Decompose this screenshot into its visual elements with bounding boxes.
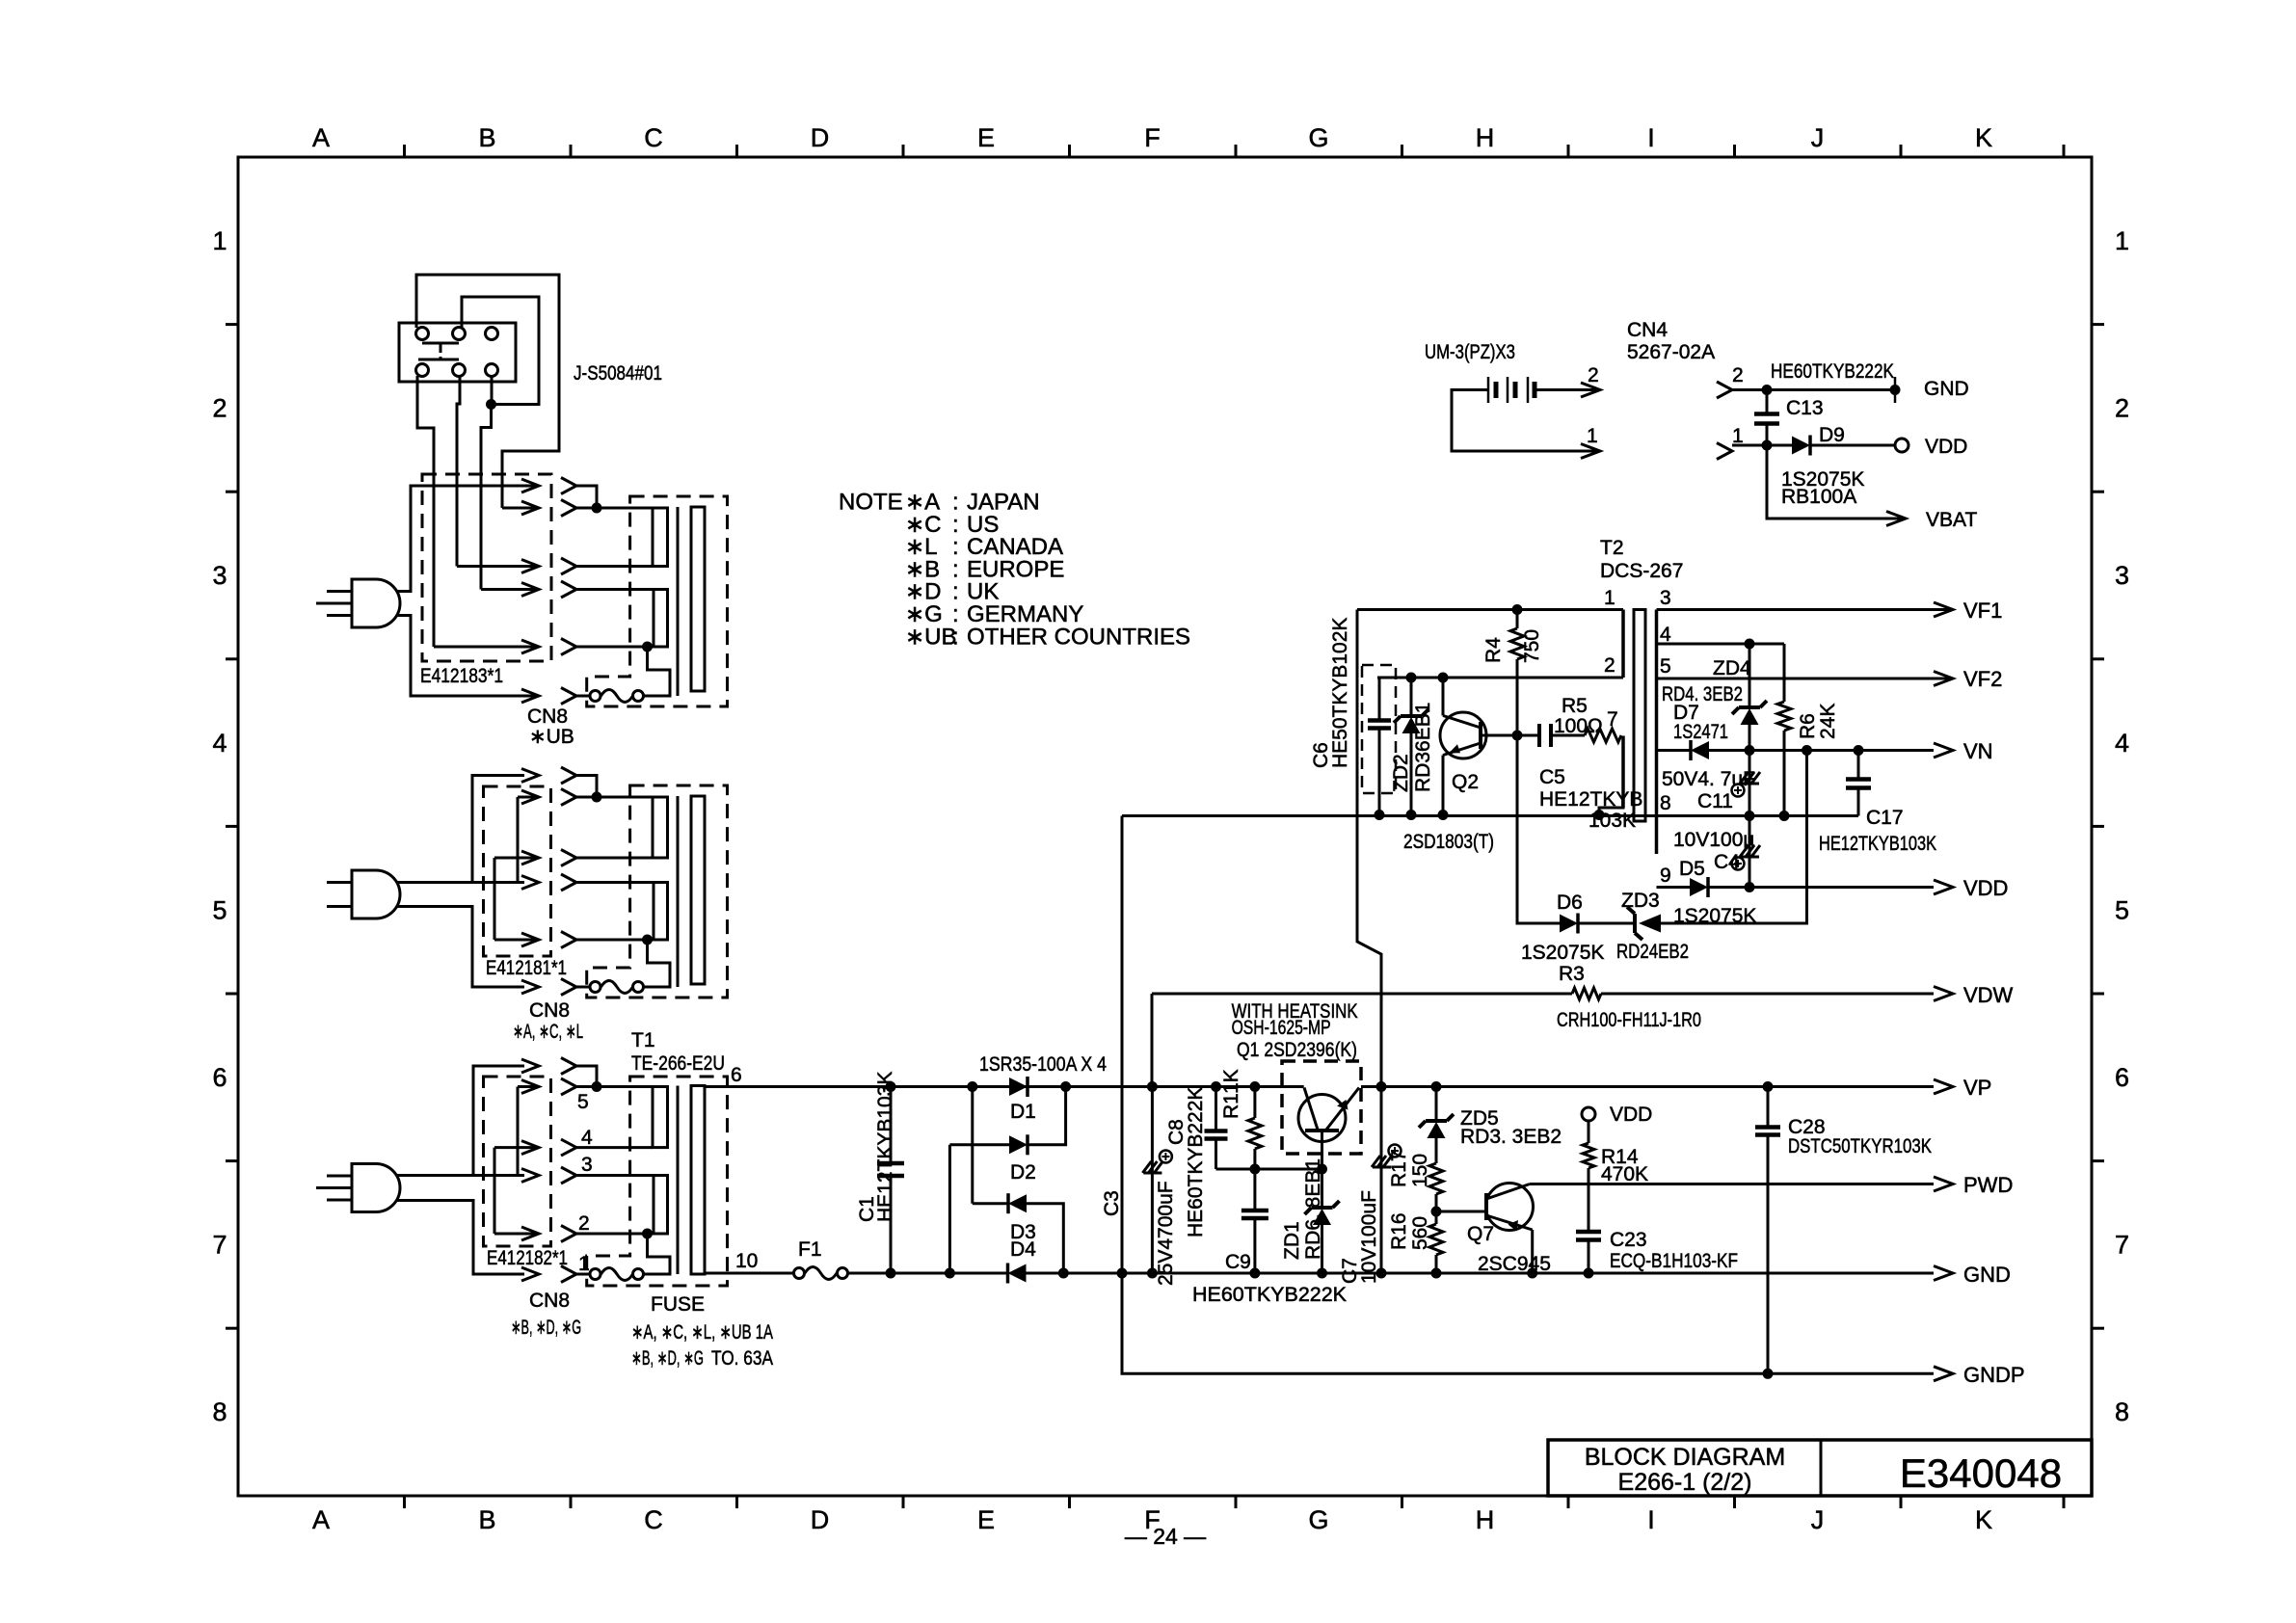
grid row ticks left (226, 323, 238, 326)
svg-text:E: E (977, 123, 995, 152)
wire VDW line (1152, 993, 1572, 996)
node C28 top (1763, 1081, 1774, 1092)
wire selector loop2 (462, 297, 539, 405)
transformer primary winding 2 (654, 1176, 668, 1235)
wire D3 line (973, 1202, 1008, 1205)
node R6 bottom (1779, 811, 1790, 821)
svg-text:3: 3 (1660, 587, 1671, 609)
node thermal fuse return (642, 642, 653, 652)
svg-text:VF1: VF1 (1963, 599, 2002, 623)
svg-text:E340048: E340048 (1900, 1450, 2062, 1496)
svg-text:CN8: CN8 (529, 1290, 570, 1312)
node D5 cathode / C4 bottom (1745, 882, 1755, 892)
svg-text:5: 5 (577, 1091, 589, 1113)
transformer secondary winding (691, 1086, 705, 1275)
svg-text:150: 150 (1409, 1154, 1431, 1187)
node C11 bottom (1745, 811, 1755, 821)
svg-text:RD3. 3EB2: RD3. 3EB2 (1460, 1126, 1562, 1148)
node D9 anode (1762, 440, 1773, 451)
svg-text:5267-02A: 5267-02A (1627, 341, 1715, 363)
diode D4 (on pin10 line) (1006, 1264, 1010, 1284)
svg-text::: : (952, 624, 959, 650)
svg-text:ECQ-B1H103-KF: ECQ-B1H103-KF (1610, 1250, 1738, 1272)
wire Q7 emitter down (1531, 1230, 1534, 1273)
fuse F1 (794, 1268, 805, 1279)
svg-text:ZD1: ZD1 (1281, 1221, 1303, 1260)
node D1 cathode (1060, 1081, 1071, 1092)
svg-text:F1: F1 (798, 1238, 822, 1261)
svg-text:2: 2 (1604, 654, 1615, 677)
svg-text:Q2: Q2 (1452, 771, 1479, 793)
resistor R16 560 (1435, 1211, 1438, 1224)
node D2 anode on pin10 line (945, 1268, 955, 1279)
node thermal fuse return (642, 935, 653, 945)
svg-text:RD24EB2: RD24EB2 (1616, 941, 1689, 963)
wire row4 to primary2 top (576, 588, 654, 591)
svg-text:1: 1 (1604, 587, 1615, 609)
svg-text:5: 5 (1660, 655, 1671, 678)
capacitor C4 (electrolytic) (1749, 816, 1751, 888)
node ZD5 top (1431, 1081, 1442, 1092)
node D3 anode on pin10 line (1058, 1268, 1069, 1279)
wire row2 to primary1 top (A2) (576, 796, 653, 799)
wire Q7 base (1436, 1211, 1486, 1213)
svg-text:E: E (977, 1505, 995, 1534)
transformer secondary winding (691, 796, 705, 984)
T2 right winding (secondary 3-9) (1655, 610, 1659, 855)
svg-text:C: C (644, 123, 663, 152)
wire VP rail right segment (1361, 1085, 1934, 1088)
node C9 bottom (1249, 1268, 1260, 1279)
svg-text:3: 3 (581, 1154, 593, 1176)
wire D2 line (949, 1143, 1009, 1146)
wire row6 to thermal fuse (576, 695, 590, 698)
wire row2 to T1 primary1 top (576, 1085, 653, 1088)
svg-text:B: B (478, 123, 495, 152)
wire plug2 top to row4 and row1 branch (397, 881, 524, 884)
transistor Q7 2SC945 (1486, 1184, 1534, 1231)
wire VF2 output (1657, 678, 1935, 680)
svg-text:R5: R5 (1562, 695, 1588, 717)
capacitor C9 (1253, 1169, 1256, 1211)
wire selector pin6 to row4 (481, 405, 492, 590)
svg-text:DCS-267: DCS-267 (1600, 560, 1683, 582)
svg-text:ZD2: ZD2 (1390, 754, 1412, 792)
svg-text:1: 1 (212, 226, 227, 255)
wire CN8 row1 to row2 (A3) (576, 1066, 597, 1087)
svg-text:A: A (312, 123, 330, 152)
node C3 bottom (1147, 1268, 1158, 1279)
svg-text:D6: D6 (1557, 891, 1583, 914)
wire jumper U2 row3-row5 (A3) (494, 1148, 496, 1234)
transformer secondary winding (691, 507, 705, 691)
dashed box Q1 heatsink (1282, 1061, 1361, 1154)
diode D7 (on VN line) (1657, 749, 1692, 752)
svg-text:J: J (1811, 123, 1825, 152)
svg-text:3: 3 (2115, 561, 2129, 590)
T2 left winding (feedback 7) (1621, 736, 1625, 809)
svg-text:4: 4 (2115, 729, 2129, 758)
capacitor C28 (1767, 1087, 1770, 1128)
svg-text:∗B, ∗D, ∗G: ∗B, ∗D, ∗G (631, 1347, 704, 1370)
wire row3 to primary1 bottom (576, 565, 653, 568)
node R16 bottom (1431, 1268, 1442, 1279)
node R1 top (1249, 1081, 1260, 1092)
svg-text:∗UB: ∗UB (905, 624, 956, 650)
grid column ticks top (403, 145, 406, 157)
wire thermal fuse return staircase (644, 647, 671, 696)
grid row ticks right (2092, 323, 2104, 326)
svg-text:E266-1 (2/2): E266-1 (2/2) (1618, 1469, 1752, 1496)
transformer primary winding 2 (654, 883, 668, 941)
svg-text:T1: T1 (631, 1029, 655, 1051)
svg-text:GND: GND (1963, 1263, 2011, 1287)
node GNDP branch on GND rail (1117, 1268, 1128, 1279)
svg-text:5: 5 (212, 895, 227, 924)
svg-text:VDD: VDD (1610, 1104, 1652, 1126)
svg-text:7: 7 (212, 1231, 227, 1260)
arrow row4 (481, 588, 539, 591)
svg-text:7: 7 (2115, 1231, 2129, 1260)
dashed box E412182*1 (484, 1077, 551, 1246)
svg-text:2: 2 (578, 1212, 590, 1235)
diode D2 (1009, 1135, 1028, 1154)
svg-text:GNDP: GNDP (1963, 1363, 2025, 1387)
terminal VDD circle (R14) (1582, 1107, 1595, 1121)
connector CN4 chevrons (1717, 382, 1732, 398)
svg-text:R6: R6 (1797, 713, 1819, 739)
svg-text:9: 9 (1660, 865, 1671, 887)
svg-text:1SR35-100A X 4: 1SR35-100A X 4 (979, 1053, 1107, 1076)
wire D2 anode down to GND-side (948, 1145, 951, 1273)
node C28 bottom on GNDP (1763, 1369, 1774, 1379)
svg-text:2: 2 (1732, 364, 1744, 386)
connector CN8 chevrons (ACL) (561, 767, 576, 784)
wire plug3 top to row4 and row1 branch (397, 1174, 524, 1177)
arrow row2 (A2) (518, 796, 539, 799)
wire selector loop1 (416, 275, 559, 508)
zener ZD1 RD6.8EB1 (1321, 1169, 1323, 1208)
connector CN8 chevrons (UB) (561, 478, 576, 494)
svg-text:C: C (644, 1505, 663, 1534)
wire pin7 to pin8 rail (1599, 736, 1623, 815)
connector CN8 chevrons (BDG) (561, 1058, 576, 1075)
svg-text:— 24 —: — 24 — (1125, 1524, 1206, 1549)
thermal fuse contacts and wave (590, 982, 601, 993)
wire ZD3 to D6 (1578, 922, 1635, 925)
svg-text:HE60TKYB222K: HE60TKYB222K (1185, 1087, 1207, 1237)
node R4 top (1512, 604, 1523, 615)
svg-text:Q7: Q7 (1467, 1223, 1494, 1245)
T2 left winding (primary 1-2) (1621, 610, 1625, 678)
wire jumper U1 row2-row4 (A3) (517, 1087, 520, 1176)
node R1/C9 junction (1249, 1164, 1260, 1175)
transformer primary winding 1 (653, 508, 668, 567)
dashed box around C6 (1362, 665, 1396, 793)
svg-text:VN: VN (1963, 739, 1993, 763)
dashed box E412183*1 (422, 474, 551, 661)
svg-text:C3: C3 (1101, 1190, 1123, 1216)
arrow row3 (457, 565, 539, 568)
svg-text:RB100A: RB100A (1781, 486, 1856, 508)
wire GNDP line (1122, 1273, 1934, 1373)
svg-text:I: I (1647, 123, 1655, 152)
transformer core (677, 507, 680, 696)
svg-text:6: 6 (2115, 1063, 2129, 1092)
thermal fuse contacts and wave (590, 1269, 601, 1280)
node C3 top (1147, 1081, 1158, 1092)
svg-text:6: 6 (212, 1063, 227, 1092)
wire D6 to Q2 base branch (1517, 735, 1560, 923)
svg-text:K: K (1975, 123, 1992, 152)
svg-text:1S2075K: 1S2075K (1673, 905, 1756, 927)
wire row5 to primary2 bottom (A2) (576, 939, 654, 942)
T2 pin4 wire (1657, 643, 1785, 646)
svg-text:VDW: VDW (1963, 983, 2014, 1007)
wire Q2 base (1481, 734, 1517, 737)
wire plug1 top to CN8 row1 (397, 486, 524, 592)
node VN branch to ZD3 (1802, 745, 1812, 756)
wire VF1 output (1657, 608, 1935, 611)
capacitor C8 (1215, 1087, 1217, 1131)
arrow VDD output (1934, 880, 1953, 894)
node Q7 emitter on GND (1527, 1268, 1537, 1279)
svg-text:4: 4 (581, 1127, 593, 1149)
svg-text:VF2: VF2 (1963, 667, 2002, 691)
svg-text:1: 1 (578, 1253, 590, 1275)
node thermal fuse return (642, 1229, 653, 1239)
svg-text:7: 7 (1607, 708, 1618, 731)
svg-text:R17: R17 (1388, 1150, 1410, 1187)
diode D1 (1009, 1078, 1028, 1096)
svg-text:D5: D5 (1679, 858, 1705, 880)
wire VBAT (1767, 445, 1886, 519)
node ZD4/C11 on VN line (1745, 745, 1755, 756)
node Q2 base / C5 / R4 (1512, 731, 1523, 741)
svg-text:T2: T2 (1600, 537, 1624, 559)
svg-text:NOTE: NOTE (839, 490, 903, 516)
node C1 bottom (886, 1268, 896, 1279)
wire row3 to primary1 bottom (A2) (576, 857, 653, 860)
arrow row5 (A3) (494, 1233, 539, 1236)
dashed box E412181*1 (484, 786, 551, 956)
wire thermal fuse return staircase (644, 940, 671, 987)
svg-text:HE60TKYB222K: HE60TKYB222K (1192, 1284, 1347, 1306)
svg-text:50V4. 7uF: 50V4. 7uF (1662, 768, 1755, 790)
wire CN4 pin1 (1732, 444, 1792, 447)
svg-text:100Ω: 100Ω (1554, 715, 1603, 737)
svg-text:CN4: CN4 (1627, 319, 1668, 341)
arrow row3 (A3) (494, 1146, 539, 1149)
transformer core (677, 796, 680, 987)
node bridge D2 branch top (967, 1081, 977, 1092)
svg-text:H: H (1476, 123, 1495, 152)
selector block J-S5084#01 (399, 323, 516, 382)
svg-text:C4: C4 (1714, 851, 1740, 873)
transistor Q2 2SD1803 (1440, 712, 1486, 758)
svg-text:D9: D9 (1819, 424, 1845, 446)
resistor R14 470K (1588, 1121, 1590, 1143)
svg-text:∗UB: ∗UB (529, 726, 574, 748)
grid column ticks bottom (403, 1496, 406, 1508)
svg-text:VDD: VDD (1925, 436, 1967, 458)
svg-text:D: D (811, 1505, 830, 1534)
svg-text:R4: R4 (1482, 637, 1505, 663)
node pin7 return on rail (1594, 810, 1605, 820)
wire D2 cathode up (1028, 1087, 1066, 1145)
resistor R6 24K (1783, 644, 1786, 702)
node C7 top / pin1 branch (1376, 1081, 1387, 1092)
selector jumper links (422, 342, 459, 345)
wire D9 to VDD terminal (1810, 444, 1895, 447)
wire pin8 rail down to GND rail (1121, 816, 1124, 1274)
wire CN4 pin2 to GND (1732, 388, 1895, 391)
capacitor C23 (1588, 1184, 1590, 1233)
svg-text:A: A (312, 1505, 330, 1534)
svg-text:10V100uF: 10V100uF (1358, 1190, 1380, 1284)
svg-text:∗A, ∗C, ∗L: ∗A, ∗C, ∗L (513, 1021, 583, 1043)
node C17 top (1854, 745, 1864, 756)
wire selector pin4 down (417, 376, 434, 647)
node C23 bottom (1584, 1268, 1594, 1279)
svg-text:HE12TKYB103K: HE12TKYB103K (874, 1072, 896, 1222)
node C13 top (1762, 385, 1773, 395)
node row1-row2 junction (A2) (592, 792, 602, 803)
svg-text:J: J (1811, 1505, 1825, 1534)
selector pin circles (416, 328, 429, 340)
wire CN8 row1 to row2 (A2) (576, 776, 597, 798)
svg-text:E412183*1: E412183*1 (420, 665, 503, 687)
capacitor C13 (1766, 390, 1769, 414)
wire VN to ZD3 line (1661, 751, 1807, 924)
svg-text:RD6. 8EB1: RD6. 8EB1 (1302, 1158, 1324, 1260)
transformer primary winding 1 (653, 797, 668, 858)
border frame (238, 157, 2092, 1496)
node ZD2 bottom (1406, 810, 1417, 820)
capacitor C5 (1517, 734, 1539, 737)
svg-text:2: 2 (1588, 364, 1599, 386)
node selector pin6 junction (486, 399, 496, 410)
svg-text:CRH100-FH11J-1R0: CRH100-FH11J-1R0 (1557, 1009, 1701, 1031)
svg-text:C5: C5 (1539, 766, 1565, 788)
svg-text:GND: GND (1924, 378, 1969, 400)
zener ZD5 RD3.3EB2 (1435, 1087, 1438, 1122)
wire Q1 base down (1321, 1131, 1323, 1169)
wire row4 to primary2 top (A2) (576, 881, 654, 884)
svg-text:CN8: CN8 (527, 705, 568, 728)
arrow row5 (A2) (494, 939, 539, 942)
wire D2 branch (971, 1087, 974, 1204)
svg-text:560: 560 (1409, 1216, 1431, 1250)
capacitor C17 (1857, 751, 1860, 780)
wire row3 to T1 primary1 bottom (576, 1146, 653, 1149)
svg-text:I: I (1647, 1505, 1655, 1534)
wire F1 to bridge (848, 1272, 1008, 1275)
thermal fuse contacts and wave (590, 691, 601, 702)
svg-text:470K: 470K (1601, 1163, 1648, 1185)
svg-text:6: 6 (731, 1064, 742, 1086)
resistor R1 1K (1253, 1087, 1256, 1119)
arrow row2 (A3) (518, 1085, 539, 1088)
T2 pin1 wire (1357, 608, 1623, 611)
svg-text:BLOCK DIAGRAM: BLOCK DIAGRAM (1585, 1444, 1785, 1471)
svg-text:8: 8 (1660, 792, 1671, 814)
svg-text:2SC945: 2SC945 (1478, 1253, 1551, 1275)
arrow row5 (434, 646, 539, 649)
svg-text:750: 750 (1521, 629, 1543, 663)
svg-text:1: 1 (1587, 425, 1598, 447)
svg-text:C9: C9 (1225, 1251, 1251, 1273)
svg-text:4: 4 (212, 729, 227, 758)
svg-text:C23: C23 (1610, 1229, 1647, 1251)
ac plug P1 (UB) (352, 579, 400, 627)
T2 pin8 rail (1122, 814, 1858, 817)
arrow VN output (1934, 743, 1953, 758)
transformer dashed outline (587, 1077, 728, 1286)
svg-text:RD36EB1: RD36EB1 (1412, 703, 1434, 792)
svg-text:D1: D1 (1010, 1101, 1036, 1123)
svg-text:10V100µ: 10V100µ (1673, 829, 1755, 851)
node ZD1 bottom (1317, 1268, 1327, 1279)
node ZD2 top (1406, 673, 1417, 683)
wire thermal fuse return staircase (644, 1234, 671, 1274)
wire GND rail (1027, 1272, 1935, 1275)
svg-text:C17: C17 (1866, 807, 1904, 829)
terminal GND battery (1890, 385, 1901, 395)
diode D9 (1792, 437, 1810, 455)
wire row4 to T1 primary2 top (576, 1174, 654, 1177)
transformer dashed outline (587, 496, 728, 706)
wire jumper U2 row3-row5 (494, 858, 496, 940)
wire selector pin6 down (491, 376, 494, 405)
node C6 bottom (1375, 810, 1385, 820)
svg-text:C11: C11 (1697, 790, 1733, 812)
wire Q7 collector / PWD line (1530, 1183, 1934, 1185)
wire row5 to primary2 bottom (576, 646, 654, 649)
svg-text:D: D (811, 123, 830, 152)
svg-text:10: 10 (735, 1250, 758, 1272)
svg-text:R3: R3 (1559, 963, 1585, 985)
ac plug P3 (B,D,G) (352, 1164, 400, 1212)
capacitor C1 (890, 1087, 893, 1164)
zener ZD4 RD4.3EB2 (1749, 644, 1751, 707)
svg-text:ZD4: ZD4 (1713, 657, 1751, 679)
svg-text:D4: D4 (1010, 1238, 1036, 1261)
svg-text:1S2075K: 1S2075K (1521, 942, 1604, 964)
svg-text:TO. 63A: TO. 63A (711, 1347, 773, 1370)
svg-text:OTHER COUNTRIES: OTHER COUNTRIES (967, 624, 1190, 650)
node Q1 base (1317, 1164, 1327, 1175)
node Q2 emitter bottom (1438, 810, 1449, 820)
svg-text:2: 2 (2115, 394, 2129, 423)
svg-text:HE12TKYB: HE12TKYB (1539, 788, 1642, 811)
resistor R4 750 (1516, 610, 1519, 629)
svg-text:FUSE: FUSE (651, 1293, 705, 1316)
wire pin1 branch down to VP rail (1357, 610, 1381, 1087)
T2 pin2 wire (1377, 677, 1623, 679)
node row1-row2 junction (592, 503, 602, 514)
svg-text:2: 2 (212, 394, 227, 423)
svg-text:G: G (1308, 123, 1328, 152)
wire T1 pin10 to fuse F1 (705, 1272, 794, 1275)
wire D3 anode down (1027, 1204, 1063, 1273)
wire plug3 bottom to CN8 fuse row (397, 1201, 524, 1275)
arrow row3 (A2) (494, 857, 539, 860)
svg-text:∗B, ∗D, ∗G: ∗B, ∗D, ∗G (511, 1317, 581, 1339)
svg-text:VDD: VDD (1963, 876, 2008, 900)
svg-text:VBAT: VBAT (1926, 509, 1977, 531)
wire plug2 bottom to CN8 fuse row (397, 907, 524, 988)
